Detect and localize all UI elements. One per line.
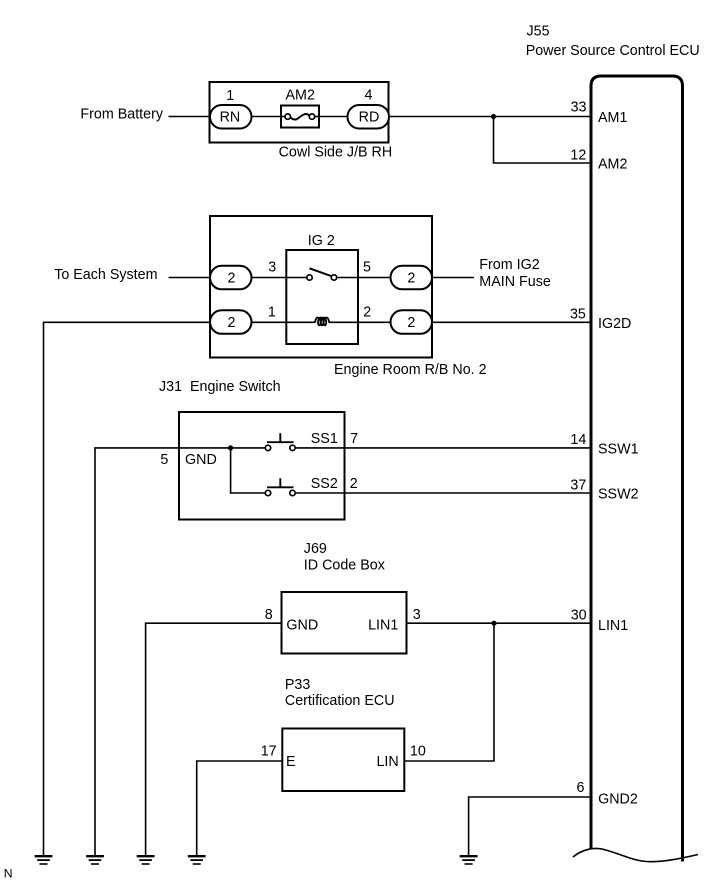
svg-text:SS2: SS2 xyxy=(311,476,338,492)
svg-text:AM2: AM2 xyxy=(286,88,315,104)
svg-text:GND2: GND2 xyxy=(598,792,638,808)
svg-text:ID Code Box: ID Code Box xyxy=(304,558,385,574)
svg-text:From Battery: From Battery xyxy=(80,107,163,123)
svg-text:LIN: LIN xyxy=(376,754,398,770)
svg-text:1: 1 xyxy=(268,305,276,321)
svg-text:LIN1: LIN1 xyxy=(368,618,398,634)
svg-text:3: 3 xyxy=(413,607,421,623)
wire ground riser to P33 pin E xyxy=(197,761,283,855)
connector terminal RD xyxy=(348,105,390,129)
relay IG2 switch contact xyxy=(307,268,337,280)
wire terminal 2 to relay pin 1 xyxy=(252,321,316,323)
svg-text:33: 33 xyxy=(571,99,587,115)
svg-text:E: E xyxy=(286,754,296,770)
svg-text:P33: P33 xyxy=(285,677,310,693)
ground symbol 5 xyxy=(460,856,478,864)
ground symbol 3 xyxy=(137,856,155,864)
wire SS2 to ECU pin SSW2 xyxy=(296,492,591,494)
svg-text:LIN1: LIN1 xyxy=(598,618,628,634)
svg-text:RN: RN xyxy=(220,110,241,126)
push switch SS1 xyxy=(265,433,295,450)
svg-text:10: 10 xyxy=(410,744,426,760)
svg-text:SSW2: SSW2 xyxy=(598,487,639,503)
ground symbol 2 xyxy=(86,856,104,864)
svg-text:1: 1 xyxy=(226,88,234,104)
certification ECU P33 body xyxy=(282,729,404,792)
wire relay pin 5 to terminal 2 xyxy=(338,277,391,279)
wire terminal 2 to ECU pin IG2D xyxy=(432,321,591,323)
connector block Cowl Side J/B RH xyxy=(210,82,389,143)
wire terminal RD to ECU pin AM1 xyxy=(389,116,591,118)
svg-text:J55: J55 xyxy=(527,24,550,40)
svg-text:From IG2: From IG2 xyxy=(479,257,539,273)
svg-text:3: 3 xyxy=(268,260,276,276)
label From IG2 MAIN Fuse xyxy=(479,257,551,290)
svg-text:8: 8 xyxy=(265,607,273,623)
svg-text:RD: RD xyxy=(359,110,380,126)
svg-text:5: 5 xyxy=(363,260,371,276)
svg-text:J31 Engine Switch: J31 Engine Switch xyxy=(159,379,281,395)
svg-text:5: 5 xyxy=(160,452,168,468)
push switch SS2 xyxy=(265,478,295,495)
connector terminal 2 lower-right xyxy=(391,310,433,334)
wire relay pin 2 to terminal 2 xyxy=(329,321,391,323)
fuse AM2 xyxy=(281,106,319,128)
svg-text:12: 12 xyxy=(570,148,586,164)
wire ground riser to terminal 2 lower-left xyxy=(44,322,212,855)
svg-text:SS1: SS1 xyxy=(311,431,338,447)
svg-text:17: 17 xyxy=(261,744,277,760)
ECU J55 title label xyxy=(526,24,700,59)
wire SS1 to ECU pin SSW1 xyxy=(296,447,591,449)
wire From Battery to terminal RN xyxy=(169,116,212,118)
wire J69 LIN1 to ECU pin LIN1 xyxy=(406,622,591,624)
svg-text:GND: GND xyxy=(185,452,217,468)
ground symbol 4 xyxy=(188,856,206,864)
svg-text:2: 2 xyxy=(407,315,415,331)
junction node GND split xyxy=(228,445,233,450)
svg-text:4: 4 xyxy=(365,88,373,104)
svg-text:GND: GND xyxy=(286,618,318,634)
svg-text:7: 7 xyxy=(350,431,358,447)
wire ground riser to ECU pin GND2 xyxy=(469,797,591,855)
svg-text:IG2D: IG2D xyxy=(598,316,631,332)
connector terminal RN xyxy=(210,105,252,129)
junction node AM1/AM2 xyxy=(491,114,496,119)
junction node LIN xyxy=(491,621,496,626)
wire terminal 2 to From IG2 MAIN Fuse xyxy=(432,277,474,279)
svg-text:14: 14 xyxy=(570,432,586,448)
svg-text:MAIN Fuse: MAIN Fuse xyxy=(479,274,551,290)
connector block Engine Room R/B No. 2 xyxy=(210,216,432,358)
svg-text:To Each System: To Each System xyxy=(54,267,157,283)
svg-text:SSW1: SSW1 xyxy=(598,442,639,458)
ID code box J69 title label xyxy=(304,541,385,574)
wire junction to ECU pin AM2 xyxy=(494,117,592,164)
wire P33 LIN to junction node LIN xyxy=(404,623,494,761)
svg-text:2: 2 xyxy=(407,271,415,287)
svg-text:6: 6 xyxy=(577,780,585,796)
switch J31 Engine Switch body xyxy=(179,412,345,520)
svg-text:Certification ECU: Certification ECU xyxy=(285,693,395,709)
wire terminal 2 to relay pin 3 xyxy=(252,277,307,279)
svg-text:Engine Room R/B No. 2: Engine Room R/B No. 2 xyxy=(334,362,487,378)
connector terminal 2 lower-left xyxy=(210,310,252,334)
wire junction to SS2 contact xyxy=(231,448,265,493)
svg-text:37: 37 xyxy=(570,477,586,493)
svg-text:N: N xyxy=(4,867,13,881)
connector terminal 2 upper-right xyxy=(391,266,433,290)
wire To Each System to terminal 2 xyxy=(169,277,212,279)
svg-text:2: 2 xyxy=(228,271,236,287)
ECU J55 Power Source Control ECU body xyxy=(591,76,683,862)
connector terminal 2 upper-left xyxy=(210,266,252,290)
wire ground riser to J69 pin GND xyxy=(146,623,281,855)
ground symbol 1 xyxy=(35,856,53,864)
wire terminal RN to fuse AM2 xyxy=(252,116,286,118)
svg-text:30: 30 xyxy=(571,608,587,624)
wire ground riser to switch pin 5 xyxy=(95,448,265,855)
svg-text:AM2: AM2 xyxy=(598,157,627,173)
svg-text:Cowl Side J/B RH: Cowl Side J/B RH xyxy=(279,144,393,160)
svg-text:IG 2: IG 2 xyxy=(308,233,335,249)
relay IG 2 body xyxy=(286,250,358,344)
svg-text:35: 35 xyxy=(570,306,586,322)
certification ECU P33 title label xyxy=(285,677,395,709)
wire fuse AM2 to terminal RD xyxy=(314,116,347,118)
svg-text:AM1: AM1 xyxy=(598,110,627,126)
svg-text:J69: J69 xyxy=(304,541,327,557)
svg-text:2: 2 xyxy=(363,305,371,321)
svg-text:2: 2 xyxy=(350,476,358,492)
ID code box J69 body xyxy=(282,592,407,654)
svg-text:2: 2 xyxy=(228,315,236,331)
relay IG2 coil xyxy=(315,317,329,325)
svg-text:Power Source Control ECU: Power Source Control ECU xyxy=(526,43,700,59)
ECU J55 break wave xyxy=(573,848,698,861)
